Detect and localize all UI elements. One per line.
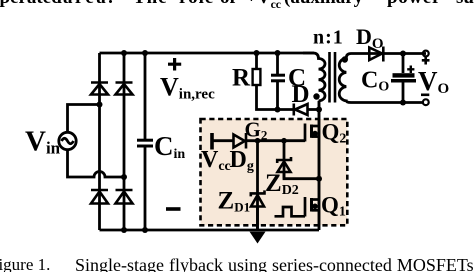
node Q2 body dot (312, 131, 318, 137)
svg-text:Vin: Vin (25, 126, 61, 158)
wire bottom rail (100, 229, 320, 232)
wire CO drop top (402, 54, 405, 74)
wire Vcc to Dg (213, 139, 234, 142)
diode D snubber clamp (294, 104, 319, 116)
output terminal top (423, 51, 429, 57)
capacitor CO (393, 73, 415, 77)
zener ZD1 (251, 190, 265, 206)
label + Vinrec (168, 58, 181, 71)
wire ZD1 to rail (256, 207, 259, 231)
svg-text:R: R (232, 65, 251, 92)
diode bridge upper-left (91, 83, 108, 95)
transformer secondary winding (339, 54, 426, 103)
node Q1 body dot (312, 204, 318, 210)
node top rail junction x124 (121, 50, 127, 56)
node CO top junction (400, 51, 406, 57)
wire primary drop / MOSFET drain line (318, 101, 321, 230)
resistor R snubber (255, 53, 258, 69)
node R top junction (254, 50, 260, 56)
wire ZD2 to source node (284, 172, 319, 179)
minus mark output (421, 94, 429, 97)
zener ZD2 (277, 157, 291, 172)
node CO bottom junction (400, 100, 406, 106)
node bottom rail junction x145 (142, 227, 148, 233)
node top rail junction x145 (142, 50, 148, 56)
primary phase dot (313, 93, 319, 99)
wire ZD1 branch (256, 141, 259, 230)
ground (250, 232, 266, 244)
wire left bridge column (98, 53, 101, 230)
diode bridge upper-right (116, 83, 133, 95)
svg-text:D: D (292, 81, 310, 108)
wire CO drop bottom (402, 83, 405, 103)
wire ZD2 branch (283, 141, 286, 179)
node AC-bottom junction (121, 174, 127, 180)
AC source Vin (59, 132, 76, 149)
svg-text:n:1: n:1 (313, 27, 344, 49)
node ZD1 tap (255, 138, 261, 144)
transformer primary winding (303, 53, 325, 101)
capacitor Cin (137, 140, 153, 146)
shaded dashed gate-drive box (201, 119, 348, 225)
caption (0, 255, 50, 272)
secondary phase dot (342, 56, 348, 62)
svg-text:Cin: Cin (154, 131, 185, 162)
label minus Vinrec (166, 207, 181, 211)
diode DO output (369, 47, 383, 62)
node C top junction (275, 50, 281, 56)
CO polarity plus mark (407, 66, 414, 74)
transistor Q2 (305, 124, 319, 142)
svg-text:VO: VO (418, 66, 449, 97)
gate pulse waveform (275, 207, 306, 216)
node snubber-drain junction (316, 107, 322, 113)
wire AC bottom lead with hop over left column (68, 150, 125, 177)
node ZD2-source junction (316, 176, 322, 182)
diode bridge lower-right (116, 190, 133, 204)
node C bottom junction (275, 107, 281, 113)
svg-text:Vin,rec: Vin,rec (160, 73, 215, 103)
wire Cin column (144, 53, 147, 230)
diode bridge lower-left (91, 190, 108, 204)
svg-text:CO: CO (361, 68, 389, 95)
Vcc supply bar (210, 133, 214, 150)
top cropped text line (0, 0, 62, 9)
wire gate bus (247, 139, 305, 142)
wire middle bridge column (123, 53, 126, 230)
node ZD2 tap (281, 138, 287, 144)
capacitor C snubber (276, 53, 279, 74)
svg-text:DO: DO (356, 24, 384, 52)
plus mark output (422, 57, 430, 65)
output terminal bottom (423, 99, 429, 105)
diode Dg (234, 133, 247, 149)
transistor Q1 (305, 197, 319, 217)
wire AC top lead (68, 105, 100, 133)
transformer core (330, 52, 336, 103)
wire top rail (100, 52, 315, 55)
node bottom rail junction x124 (121, 227, 127, 233)
node AC-top junction (97, 102, 103, 108)
